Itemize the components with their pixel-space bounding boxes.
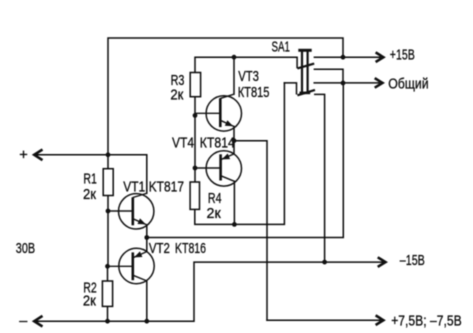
wire VT3 emitter down to junction	[233, 127, 235, 141]
transistor VT2 (PNP KT816)	[108, 248, 155, 283]
wire VT3 base to VT4 base	[194, 115, 196, 168]
wire emitters junction to output column	[234, 141, 267, 321]
label R3	[170, 73, 184, 104]
wire VT3 collector up	[233, 57, 235, 94]
label VT4 KT814	[172, 135, 235, 151]
pole1 lever	[297, 64, 314, 69]
wire pole2 upper throw to obshchiy	[314, 82, 379, 84]
label R2	[83, 281, 97, 310]
svg-text:KT817: KT817	[149, 180, 184, 196]
svg-text:–15В: –15В	[400, 253, 425, 269]
wire VT2 base to R2 to bottom rail	[107, 266, 109, 321]
wire R3 bottom to VT3 base	[194, 97, 196, 116]
junction node VT3 VT4 emitters	[232, 138, 237, 143]
svg-text:2к: 2к	[207, 206, 222, 222]
gang bar right	[307, 51, 309, 94]
junction node VT1 VT2 emitters	[144, 235, 149, 240]
wire switch pole2 common step	[284, 83, 296, 94]
wire VT4 collector down	[233, 181, 235, 224]
arrow plus input	[34, 150, 42, 161]
junction node VT2 base	[105, 264, 110, 269]
svg-text:КТ814: КТ814	[200, 135, 235, 151]
svg-text:КТ815: КТ815	[238, 85, 270, 101]
transistor VT4 (PNP KT814)	[195, 151, 242, 186]
label SA1	[272, 40, 291, 56]
transistor VT3 (NPN KT815)	[195, 94, 242, 131]
gang bar bottom cap	[300, 92, 311, 95]
wire pole2 lower throw down to -15V	[315, 94, 325, 262]
gang bar left	[301, 51, 303, 94]
wire minus input bottom-left rail to -15V line	[35, 262, 386, 321]
junction node R2 bottom rail	[105, 319, 110, 324]
svg-text:VT2: VT2	[149, 241, 170, 257]
arrow minus input	[34, 316, 42, 327]
arrow -15V output	[378, 257, 386, 267]
wire emitters junction to common rail	[147, 83, 343, 238]
junction node plus/R1 rail	[106, 152, 111, 157]
wire VT2 emitter up to junction	[146, 238, 148, 252]
label VT2 KT816	[149, 241, 206, 257]
resistor R4	[190, 182, 199, 209]
junction node VT4 collector	[232, 222, 237, 227]
arrow +15V output	[376, 52, 384, 62]
junction node obshchiy	[341, 81, 346, 86]
svg-text:Общий: Общий	[388, 76, 429, 92]
switch SA1	[297, 50, 315, 95]
svg-text:KT816: KT816	[175, 241, 206, 257]
svg-text:R4: R4	[208, 191, 222, 207]
label R4	[207, 191, 222, 222]
gang bar top cap	[298, 49, 311, 52]
wire VT1 emitter to junction	[146, 225, 148, 238]
wire R4 bottom to switch pole2 common	[195, 83, 285, 225]
wire left rail VT1 base to VT2 base	[107, 211, 109, 266]
wire left rail R1 leads	[107, 155, 109, 211]
svg-text:+: +	[19, 147, 28, 163]
svg-text:2к: 2к	[83, 187, 97, 203]
wire plus input	[35, 155, 147, 194]
junction node -15V	[322, 260, 327, 265]
svg-text:2к: 2к	[170, 88, 184, 104]
arrow +7.5V output	[376, 315, 384, 325]
junction node VT1 base	[106, 209, 111, 214]
label R1	[83, 172, 97, 203]
label VT3 KT815	[238, 69, 270, 101]
wire VT4 base to R4 top	[194, 168, 196, 182]
resistor R1	[103, 169, 113, 196]
svg-text:+7,5В; –7,5В: +7,5В; –7,5В	[391, 314, 462, 330]
wire output to +7.5V arrow	[267, 319, 380, 321]
wire VT2 collector to bottom rail	[146, 281, 148, 321]
svg-text:30В: 30В	[16, 241, 35, 257]
junction node VT3 collector	[232, 55, 237, 60]
svg-text:2к: 2к	[83, 294, 97, 310]
label VT1 KT817	[123, 180, 184, 196]
pole2 lever	[297, 90, 315, 95]
resistor R2	[102, 281, 112, 306]
transistor VT1 (NPN KT817)	[108, 193, 154, 229]
svg-text:SA1: SA1	[272, 40, 291, 56]
svg-text:–: –	[19, 313, 28, 329]
junction node VT2 collector rail	[144, 319, 149, 324]
junction node +15V	[341, 55, 346, 60]
junction node VT4 base	[193, 166, 198, 171]
wire pole1 upper throw to +15V	[314, 56, 380, 58]
wire R3 top line to switch pole1 common	[195, 57, 297, 72]
wire pole1 lower throw to common junction	[314, 69, 343, 83]
svg-text:R3: R3	[171, 73, 185, 89]
wire top rail	[108, 38, 343, 155]
svg-text:VT4: VT4	[172, 135, 194, 151]
svg-text:VT3: VT3	[238, 69, 259, 85]
svg-text:R1: R1	[83, 172, 97, 188]
resistor R3	[190, 73, 200, 97]
junction node VT3 base	[193, 113, 198, 118]
arrow obshchiy output	[375, 78, 383, 88]
wire VT4 emitter up to junction	[233, 141, 235, 154]
svg-text:VT1: VT1	[123, 180, 145, 196]
svg-text:+15В: +15В	[390, 48, 415, 64]
